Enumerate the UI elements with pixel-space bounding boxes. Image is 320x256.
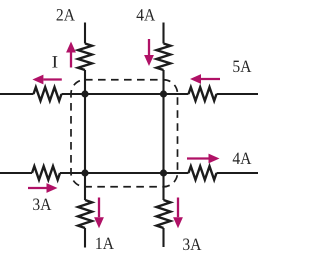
resistor top-left vertical [78, 44, 92, 71]
wire left vertical bottom stub [84, 228, 86, 248]
current arrow right 3A left branch [28, 187, 47, 189]
node bottom-right [160, 169, 167, 176]
wire right vertical middle [162, 70, 164, 200]
label 5A [233, 61, 239, 72]
label 4A top [137, 9, 144, 20]
resistor top-right vertical [157, 44, 171, 71]
current arrow left I branch [43, 78, 61, 80]
dashed closed surface (supernode boundary) [71, 80, 178, 187]
resistor top-right horizontal [189, 87, 217, 101]
wire bottom rail left segment [0, 172, 32, 174]
node top-right [160, 90, 167, 97]
resistor bottom-left vertical [78, 200, 92, 228]
current arrow left 5A branch [201, 78, 220, 80]
current arrow down 1A branch [98, 198, 100, 218]
current arrow up 2A branch [70, 53, 72, 68]
current arrow down 3A bottom branch [177, 198, 179, 218]
resistor bottom-left horizontal [32, 166, 60, 180]
wire top rail left segment [0, 93, 34, 95]
wire top rail middle [62, 93, 164, 95]
label 2A [57, 9, 63, 20]
label 4A right [233, 153, 240, 164]
wire left vertical top stub [84, 23, 86, 44]
current arrow down 4A top branch [148, 39, 150, 55]
wire bottom rail middle [60, 172, 164, 174]
wire right vertical top stub [162, 23, 164, 44]
wire bottom rail right segments [164, 172, 189, 174]
resistor bottom-right vertical [157, 200, 171, 228]
wire top rail right segments [164, 93, 189, 95]
label 3A bottom [183, 239, 189, 251]
current arrow right 4A right branch [187, 157, 209, 159]
label 1A [96, 238, 101, 249]
wire right vertical bottom stub [162, 228, 164, 247]
resistor bottom-right horizontal [189, 166, 217, 180]
label I [52, 56, 57, 67]
label 3A left [33, 199, 39, 211]
resistor top-left horizontal [34, 87, 62, 101]
node top-left [81, 90, 88, 97]
wire left vertical middle [84, 70, 86, 200]
node bottom-left [81, 169, 88, 176]
